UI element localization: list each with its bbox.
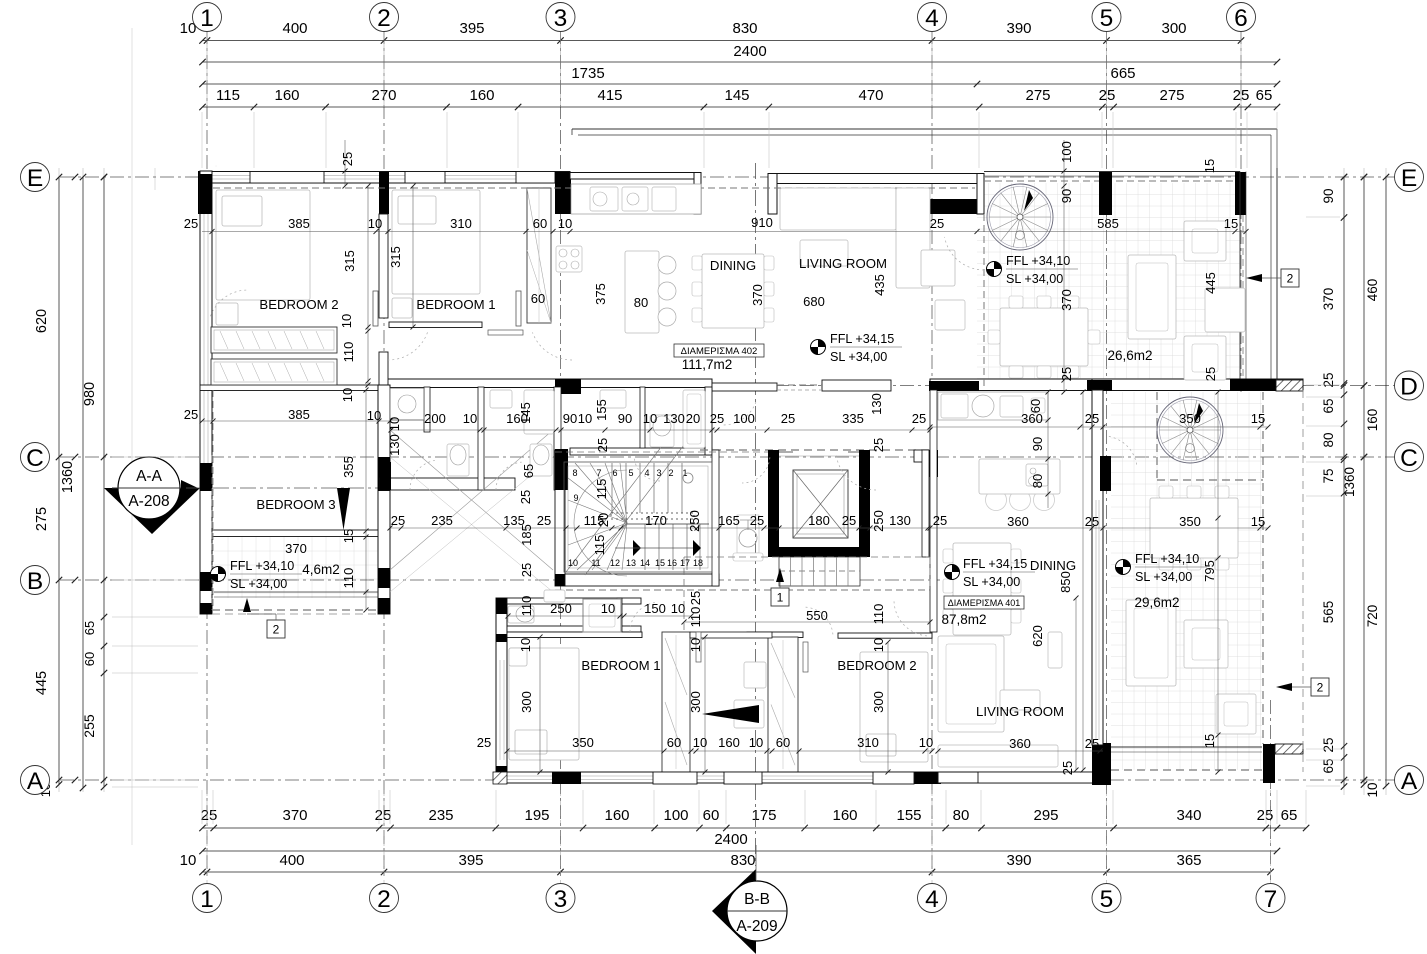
svg-text:A-208: A-208: [128, 493, 169, 510]
svg-text:25: 25: [1099, 87, 1116, 104]
svg-text:DINING: DINING: [710, 258, 756, 273]
svg-text:165: 165: [718, 513, 740, 528]
svg-text:2400: 2400: [714, 831, 747, 848]
svg-text:300: 300: [519, 691, 534, 713]
svg-text:87,8m2: 87,8m2: [941, 612, 986, 627]
svg-text:25: 25: [184, 216, 198, 231]
svg-text:350: 350: [572, 735, 594, 750]
svg-text:315: 315: [388, 246, 403, 268]
svg-text:10: 10: [688, 638, 703, 652]
svg-text:25: 25: [477, 735, 491, 750]
svg-text:385: 385: [288, 407, 310, 422]
svg-text:25: 25: [912, 411, 926, 426]
svg-text:90: 90: [618, 411, 632, 426]
svg-text:370: 370: [1321, 288, 1336, 311]
svg-text:10: 10: [387, 417, 402, 431]
svg-text:1360: 1360: [1342, 467, 1357, 497]
svg-text:E: E: [27, 165, 43, 192]
svg-text:25: 25: [842, 513, 856, 528]
svg-text:130: 130: [869, 393, 884, 415]
svg-text:315: 315: [342, 250, 357, 272]
svg-text:460: 460: [1365, 279, 1380, 302]
svg-text:110: 110: [341, 342, 356, 363]
svg-text:10: 10: [871, 638, 886, 652]
svg-text:25: 25: [518, 490, 533, 504]
svg-text:10: 10: [1365, 782, 1380, 797]
svg-text:5: 5: [628, 468, 633, 478]
svg-text:385: 385: [288, 216, 310, 231]
svg-text:10: 10: [749, 735, 763, 750]
svg-text:1: 1: [777, 591, 784, 605]
svg-text:115: 115: [594, 479, 609, 500]
svg-text:90: 90: [1030, 437, 1045, 451]
svg-text:BEDROOM 2: BEDROOM 2: [259, 297, 338, 312]
svg-text:80: 80: [634, 295, 648, 310]
svg-text:25: 25: [781, 411, 795, 426]
svg-text:1360: 1360: [60, 461, 76, 493]
svg-text:25: 25: [595, 438, 610, 452]
svg-text:6: 6: [612, 468, 617, 478]
svg-text:25: 25: [1257, 807, 1274, 824]
svg-text:60: 60: [533, 216, 547, 231]
svg-text:LIVING ROOM: LIVING ROOM: [799, 256, 887, 271]
svg-text:5: 5: [1100, 5, 1114, 32]
svg-text:390: 390: [1006, 20, 1031, 37]
svg-text:25: 25: [1321, 372, 1336, 387]
svg-text:3: 3: [554, 886, 568, 913]
svg-text:565: 565: [1321, 601, 1336, 624]
svg-text:310: 310: [450, 216, 472, 231]
svg-text:80: 80: [953, 807, 970, 824]
svg-text:25: 25: [537, 513, 551, 528]
svg-text:110: 110: [519, 596, 534, 617]
svg-text:26,6m2: 26,6m2: [1107, 348, 1152, 363]
svg-text:ΔΙΑΜΕΡΙΣΜΑ 401: ΔΙΑΜΕΡΙΣΜΑ 401: [948, 598, 1021, 608]
svg-text:110: 110: [341, 568, 356, 589]
svg-text:100: 100: [1059, 141, 1074, 163]
svg-text:6: 6: [1234, 5, 1248, 32]
svg-text:25: 25: [1085, 736, 1099, 751]
svg-text:360: 360: [1007, 514, 1029, 529]
svg-text:10: 10: [180, 852, 197, 869]
svg-text:150: 150: [644, 601, 666, 616]
svg-text:A-A: A-A: [136, 468, 163, 485]
svg-text:155: 155: [896, 807, 921, 824]
svg-text:25: 25: [375, 807, 392, 824]
svg-text:25: 25: [930, 216, 944, 231]
svg-text:160: 160: [469, 87, 494, 104]
svg-text:D: D: [1400, 373, 1418, 400]
svg-text:360: 360: [1009, 736, 1031, 751]
svg-text:65: 65: [1281, 807, 1298, 824]
svg-text:10: 10: [693, 735, 707, 750]
svg-text:4: 4: [925, 886, 939, 913]
svg-text:25: 25: [519, 563, 534, 577]
svg-text:250: 250: [550, 601, 572, 616]
svg-text:310: 310: [857, 735, 879, 750]
svg-text:390: 390: [1006, 852, 1031, 869]
svg-text:15: 15: [1224, 216, 1238, 231]
svg-text:15: 15: [1251, 411, 1265, 426]
svg-text:620: 620: [1030, 625, 1045, 647]
svg-text:25: 25: [710, 411, 724, 426]
svg-text:14: 14: [640, 558, 650, 568]
svg-text:7: 7: [596, 468, 601, 478]
svg-text:15: 15: [1202, 734, 1217, 748]
svg-text:235: 235: [428, 807, 453, 824]
svg-text:720: 720: [1365, 605, 1380, 628]
svg-text:90: 90: [1059, 189, 1074, 203]
svg-text:A: A: [27, 768, 44, 795]
svg-text:65: 65: [1256, 87, 1273, 104]
svg-text:DINING: DINING: [1030, 558, 1076, 573]
svg-text:200: 200: [424, 411, 446, 426]
svg-text:SL +34,00: SL +34,00: [963, 575, 1020, 589]
svg-text:60: 60: [531, 291, 545, 306]
svg-text:29,6m2: 29,6m2: [1134, 595, 1179, 610]
svg-text:335: 335: [842, 411, 864, 426]
svg-text:25: 25: [1321, 737, 1336, 752]
svg-text:111,7m2: 111,7m2: [682, 357, 733, 372]
svg-text:60: 60: [1028, 399, 1043, 413]
svg-text:4: 4: [925, 5, 939, 32]
svg-text:7: 7: [1264, 886, 1278, 913]
svg-text:10: 10: [643, 411, 657, 426]
svg-text:10: 10: [339, 314, 354, 328]
svg-text:C: C: [1400, 445, 1418, 472]
svg-text:11: 11: [591, 558, 600, 568]
svg-text:18: 18: [693, 558, 703, 568]
svg-text:10: 10: [340, 388, 355, 402]
svg-text:180: 180: [808, 513, 830, 528]
svg-text:2: 2: [668, 468, 673, 478]
svg-text:2: 2: [1287, 272, 1294, 286]
svg-text:BEDROOM 1: BEDROOM 1: [416, 297, 495, 312]
svg-text:BEDROOM 1: BEDROOM 1: [581, 658, 660, 673]
svg-text:355: 355: [341, 456, 356, 478]
svg-text:415: 415: [597, 87, 622, 104]
svg-text:8: 8: [572, 468, 577, 478]
svg-text:FFL +34,15: FFL +34,15: [830, 332, 894, 346]
svg-text:FFL +34,10: FFL +34,10: [1006, 254, 1070, 268]
svg-text:145: 145: [724, 87, 749, 104]
svg-text:115: 115: [592, 535, 607, 556]
svg-text:365: 365: [1176, 852, 1201, 869]
svg-text:340: 340: [1176, 807, 1201, 824]
svg-text:160: 160: [832, 807, 857, 824]
svg-text:830: 830: [730, 852, 755, 869]
svg-text:E: E: [1401, 165, 1417, 192]
svg-text:275: 275: [1025, 87, 1050, 104]
svg-text:910: 910: [751, 215, 773, 230]
svg-text:110: 110: [688, 607, 703, 628]
svg-text:1: 1: [200, 886, 214, 913]
svg-text:110: 110: [871, 604, 886, 625]
svg-text:10: 10: [463, 411, 477, 426]
svg-text:SL +34,00: SL +34,00: [830, 350, 887, 364]
svg-text:445: 445: [34, 671, 50, 695]
svg-text:300: 300: [871, 691, 886, 713]
svg-text:C: C: [26, 445, 44, 472]
svg-text:585: 585: [1097, 216, 1119, 231]
svg-text:300: 300: [1161, 20, 1186, 37]
svg-text:400: 400: [282, 20, 307, 37]
svg-text:130: 130: [663, 411, 685, 426]
svg-text:65: 65: [521, 464, 536, 478]
svg-text:1735: 1735: [571, 65, 604, 82]
svg-text:15: 15: [1251, 514, 1265, 529]
svg-text:400: 400: [279, 852, 304, 869]
svg-text:2: 2: [377, 5, 391, 32]
svg-text:BEDROOM 3: BEDROOM 3: [256, 497, 335, 512]
svg-text:135: 135: [503, 513, 525, 528]
svg-text:15: 15: [655, 558, 665, 568]
svg-text:25: 25: [201, 807, 218, 824]
svg-text:250: 250: [687, 510, 702, 532]
svg-text:60: 60: [667, 735, 681, 750]
svg-text:25: 25: [871, 438, 886, 452]
svg-text:250: 250: [871, 510, 886, 532]
svg-text:25: 25: [1060, 761, 1075, 775]
svg-text:16: 16: [667, 558, 677, 568]
svg-text:65: 65: [1321, 398, 1336, 413]
svg-text:65: 65: [1321, 758, 1336, 773]
svg-text:25: 25: [1059, 367, 1074, 381]
svg-text:10: 10: [671, 601, 685, 616]
svg-text:20: 20: [596, 513, 611, 527]
svg-text:195: 195: [524, 807, 549, 824]
svg-text:10: 10: [578, 411, 592, 426]
svg-text:370: 370: [282, 807, 307, 824]
svg-text:10: 10: [558, 216, 572, 231]
svg-text:680: 680: [803, 294, 825, 309]
svg-text:25: 25: [340, 152, 355, 166]
svg-text:2: 2: [1317, 681, 1324, 695]
svg-text:395: 395: [458, 852, 483, 869]
svg-text:375: 375: [593, 283, 608, 305]
svg-text:275: 275: [34, 507, 50, 531]
svg-text:25: 25: [184, 407, 198, 422]
svg-text:13: 13: [626, 558, 636, 568]
svg-text:350: 350: [1179, 411, 1201, 426]
svg-text:80: 80: [1030, 474, 1045, 488]
svg-text:795: 795: [1202, 560, 1217, 582]
svg-text:A-209: A-209: [736, 918, 777, 935]
svg-text:5: 5: [1100, 886, 1114, 913]
svg-text:25: 25: [1085, 411, 1099, 426]
svg-text:25: 25: [750, 513, 764, 528]
svg-text:A: A: [1401, 768, 1418, 795]
svg-text:65: 65: [82, 621, 97, 635]
svg-text:665: 665: [1110, 65, 1135, 82]
svg-text:295: 295: [1033, 807, 1058, 824]
svg-text:155: 155: [594, 399, 609, 421]
svg-text:10: 10: [518, 638, 533, 652]
svg-text:9: 9: [573, 493, 578, 503]
svg-text:550: 550: [806, 608, 828, 623]
svg-text:SL +34,00: SL +34,00: [1006, 272, 1063, 286]
svg-text:LIVING ROOM: LIVING ROOM: [976, 704, 1064, 719]
svg-text:2: 2: [273, 623, 280, 637]
svg-text:2400: 2400: [733, 43, 766, 60]
svg-text:60: 60: [82, 652, 97, 666]
svg-text:10: 10: [601, 601, 615, 616]
svg-text:25: 25: [391, 513, 405, 528]
svg-text:160: 160: [604, 807, 629, 824]
svg-text:15: 15: [1202, 159, 1217, 173]
svg-text:B: B: [27, 568, 43, 595]
svg-text:130: 130: [889, 513, 911, 528]
svg-text:160: 160: [274, 87, 299, 104]
svg-text:25: 25: [1085, 514, 1099, 529]
svg-text:10: 10: [568, 558, 578, 568]
svg-text:10: 10: [367, 408, 381, 423]
svg-text:100: 100: [733, 411, 755, 426]
svg-text:160: 160: [718, 735, 740, 750]
svg-text:75: 75: [1321, 468, 1336, 483]
svg-text:BEDROOM 2: BEDROOM 2: [837, 658, 916, 673]
svg-text:255: 255: [81, 714, 97, 738]
svg-text:1: 1: [200, 5, 214, 32]
svg-text:20: 20: [686, 411, 700, 426]
svg-text:25: 25: [933, 513, 947, 528]
svg-text:435: 435: [872, 274, 887, 296]
svg-text:115: 115: [216, 87, 240, 104]
svg-text:90: 90: [1321, 188, 1336, 203]
svg-text:620: 620: [34, 309, 50, 333]
svg-text:395: 395: [459, 20, 484, 37]
svg-text:235: 235: [431, 513, 453, 528]
svg-text:25: 25: [1203, 367, 1218, 381]
svg-text:10: 10: [919, 735, 933, 750]
svg-text:370: 370: [285, 541, 307, 556]
svg-text:300: 300: [688, 691, 703, 713]
svg-text:3: 3: [656, 468, 661, 478]
svg-text:170: 170: [645, 513, 667, 528]
svg-text:130: 130: [387, 434, 402, 456]
svg-text:145: 145: [518, 402, 533, 424]
svg-text:2: 2: [377, 886, 391, 913]
svg-text:FFL +34,10: FFL +34,10: [1135, 552, 1199, 566]
svg-text:17: 17: [680, 558, 690, 568]
svg-text:SL +34,00: SL +34,00: [1135, 570, 1192, 584]
svg-text:370: 370: [750, 284, 765, 306]
svg-text:445: 445: [1203, 272, 1218, 294]
svg-text:FFL +34,15: FFL +34,15: [963, 557, 1027, 571]
svg-text:350: 350: [1179, 514, 1201, 529]
svg-text:90: 90: [563, 411, 577, 426]
svg-text:15: 15: [341, 529, 356, 543]
svg-text:12: 12: [610, 558, 620, 568]
svg-text:470: 470: [858, 87, 883, 104]
svg-text:SL +34,00: SL +34,00: [230, 577, 287, 591]
svg-text:ΔΙΑΜΕΡΙΣΜΑ 402: ΔΙΑΜΕΡΙΣΜΑ 402: [681, 346, 758, 357]
svg-text:25: 25: [688, 591, 703, 605]
svg-text:4,6m2: 4,6m2: [302, 562, 340, 577]
svg-text:850: 850: [1058, 571, 1073, 593]
svg-text:160: 160: [1365, 409, 1380, 432]
svg-text:B-B: B-B: [744, 891, 770, 908]
svg-text:100: 100: [663, 807, 688, 824]
svg-text:60: 60: [776, 735, 790, 750]
svg-text:980: 980: [82, 382, 98, 406]
svg-text:10: 10: [368, 216, 382, 231]
svg-text:3: 3: [554, 5, 568, 32]
svg-text:275: 275: [1159, 87, 1184, 104]
svg-text:FFL +34,10: FFL +34,10: [230, 559, 294, 573]
svg-text:370: 370: [1059, 289, 1074, 311]
svg-text:80: 80: [1321, 432, 1336, 447]
svg-text:60: 60: [703, 807, 720, 824]
svg-text:830: 830: [732, 20, 757, 37]
